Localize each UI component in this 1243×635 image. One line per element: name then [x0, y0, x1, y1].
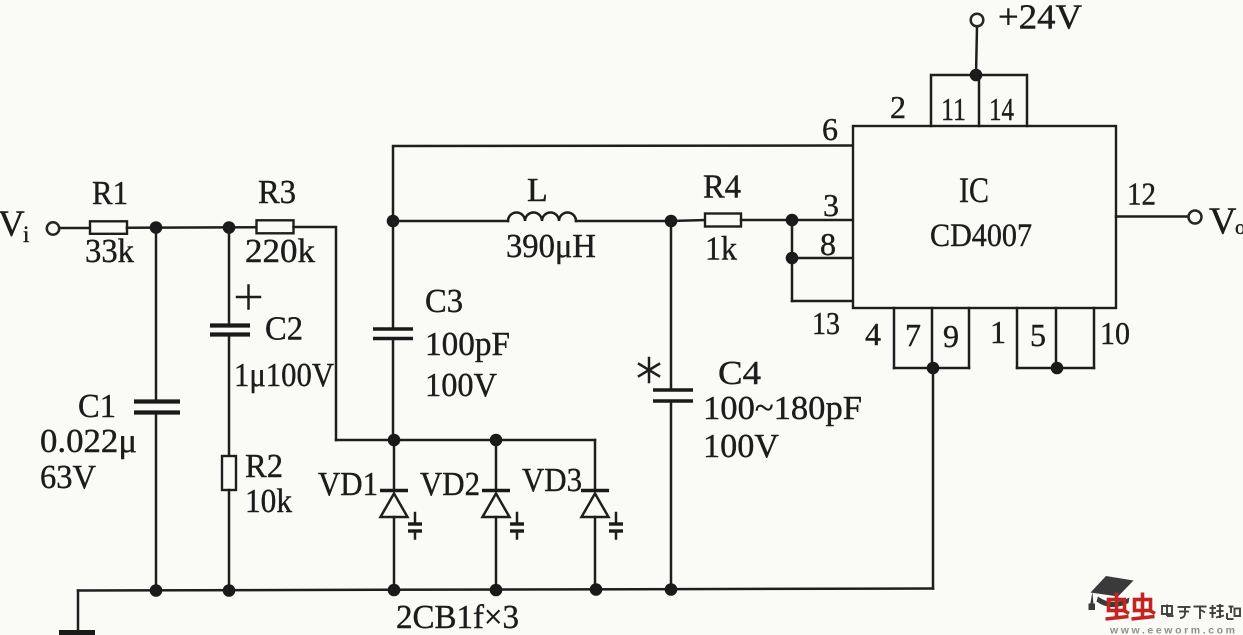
svg-text:33k: 33k [85, 233, 134, 270]
output terminal Vo [1189, 211, 1202, 224]
junction dot VD2 bottom [490, 584, 503, 597]
watermark graduation cap [1089, 576, 1134, 610]
svg-text:220k: 220k [245, 233, 315, 270]
wire ground drop [77, 591, 80, 632]
wire C4 node to R4 [671, 220, 705, 221]
svg-text:i: i [23, 222, 29, 247]
junction node VD2 top [490, 434, 503, 447]
svg-text:VD3: VD3 [522, 462, 582, 499]
wire R4 to pin 3 [741, 219, 853, 222]
IC U1 CD4007 [853, 126, 1116, 308]
wire L left [393, 220, 508, 223]
svg-text:5: 5 [1030, 317, 1046, 353]
svg-text:3: 3 [823, 187, 839, 223]
wire R2 to ground bus [228, 490, 231, 591]
svg-text:9: 9 [943, 318, 959, 354]
wire to pin 8 [792, 257, 853, 260]
capacitor C2 polarity plus [237, 286, 260, 309]
wire pin3 node down to pin13 [791, 220, 794, 301]
svg-text:R1: R1 [92, 175, 128, 212]
wire +24V [976, 27, 977, 75]
diode VD1 [380, 440, 408, 590]
input terminal Vi [47, 222, 59, 234]
wire VSS to ground bus [932, 368, 935, 589]
wire L to C4 node [576, 220, 671, 223]
svg-text:0.022μ: 0.022μ [40, 423, 137, 460]
junction node pins 5-10 [1051, 362, 1064, 375]
varactor mark VD1 [408, 513, 422, 539]
varactor mark VD2 [510, 513, 524, 539]
wire R3 right then down to diode bus [294, 227, 337, 440]
watermark site name characters [1162, 604, 1240, 619]
resistor R4 [705, 214, 741, 227]
asterisk mark for C4 [639, 358, 659, 382]
junction dot R2 bottom [223, 584, 236, 597]
svg-text:IC: IC [959, 170, 989, 210]
svg-text:7: 7 [905, 317, 921, 353]
junction node C4 top [665, 215, 678, 228]
wire diode top bus [336, 439, 595, 442]
pin divider 11/14 [978, 75, 981, 126]
wire R1 to R3 [127, 226, 257, 229]
junction node VSS [927, 362, 940, 375]
svg-text:100~180pF: 100~180pF [703, 390, 862, 427]
svg-text:100V: 100V [703, 428, 779, 465]
inductor L [508, 213, 576, 222]
junction node VD1 top [388, 434, 401, 447]
capacitor C1 [134, 228, 180, 591]
node Vi label [0, 204, 29, 247]
wire pin 12 to Vo [1116, 215, 1188, 218]
svg-text:14: 14 [989, 91, 1014, 127]
svg-text:CD4007: CD4007 [930, 218, 1032, 254]
svg-text:R4: R4 [703, 169, 741, 206]
junction node pin8 [786, 252, 799, 265]
svg-text:8: 8 [820, 226, 836, 262]
capacitor C4 [653, 221, 693, 590]
capacitor C2 [210, 228, 250, 457]
wire Vi to R1 [60, 227, 90, 230]
svg-text:13: 13 [812, 305, 840, 341]
svg-text:VD1: VD1 [318, 466, 378, 503]
svg-text:100V: 100V [425, 367, 497, 404]
capacitor C3 [373, 221, 413, 440]
svg-text:R2: R2 [245, 448, 283, 485]
svg-text:o: o [1235, 215, 1243, 239]
svg-text:2CB1f×3: 2CB1f×3 [396, 599, 519, 635]
svg-text:C2: C2 [265, 311, 303, 348]
svg-text:C4: C4 [718, 355, 761, 392]
svg-text:2: 2 [890, 89, 906, 125]
junction node C2 top [223, 221, 236, 234]
wire ground bus [78, 589, 933, 591]
resistor R1 [90, 221, 127, 234]
svg-text:1k: 1k [705, 231, 737, 268]
junction node C3 top [387, 215, 400, 228]
node Vo label [1209, 201, 1243, 243]
svg-text:www.eeworm.com: www.eeworm.com [1109, 625, 1238, 635]
svg-text:C3: C3 [425, 283, 463, 320]
svg-text:12: 12 [1127, 176, 1156, 212]
svg-text:V: V [1209, 201, 1237, 243]
varactor mark VD3 [609, 513, 623, 539]
junction node pin3 [786, 214, 799, 227]
junction node +24V [970, 69, 983, 82]
junction dot VD3 bottom [590, 583, 603, 596]
svg-text:4: 4 [865, 316, 881, 352]
svg-text:10: 10 [1100, 315, 1130, 351]
svg-text:10k: 10k [245, 483, 292, 520]
svg-text:VD2: VD2 [420, 466, 480, 503]
svg-text:V: V [0, 204, 25, 245]
svg-text:+24V: +24V [998, 0, 1082, 37]
terminal +24V [971, 14, 984, 27]
wire to pin 13 [792, 300, 853, 303]
pin bracket 5 10 [1017, 308, 1094, 368]
svg-text:11: 11 [941, 91, 966, 127]
junction node C1 top [150, 221, 163, 234]
svg-text:1: 1 [990, 314, 1006, 350]
svg-text:63V: 63V [40, 459, 96, 496]
pin bracket 11 14 [931, 75, 1027, 126]
svg-text:R3: R3 [258, 174, 296, 211]
svg-text:100pF: 100pF [425, 326, 510, 363]
watermark chongchong red characters [1106, 593, 1156, 620]
svg-text:390μH: 390μH [506, 228, 596, 265]
diode VD3 [581, 440, 609, 590]
diode VD2 [482, 440, 510, 590]
junction dot C4 bottom [665, 583, 678, 596]
wire top bus to pin 6 [393, 146, 853, 222]
junction dot VD1 bottom [388, 584, 401, 597]
svg-text:6: 6 [822, 111, 838, 147]
ground symbol [59, 630, 95, 635]
svg-text:C1: C1 [78, 388, 116, 425]
pin bracket 7 9 [894, 308, 969, 368]
junction dot C1 bottom [150, 584, 163, 597]
svg-text:L: L [527, 172, 548, 209]
resistor R3 [257, 220, 294, 233]
svg-text:1μ100V: 1μ100V [234, 357, 334, 394]
resistor R2 [222, 456, 236, 490]
